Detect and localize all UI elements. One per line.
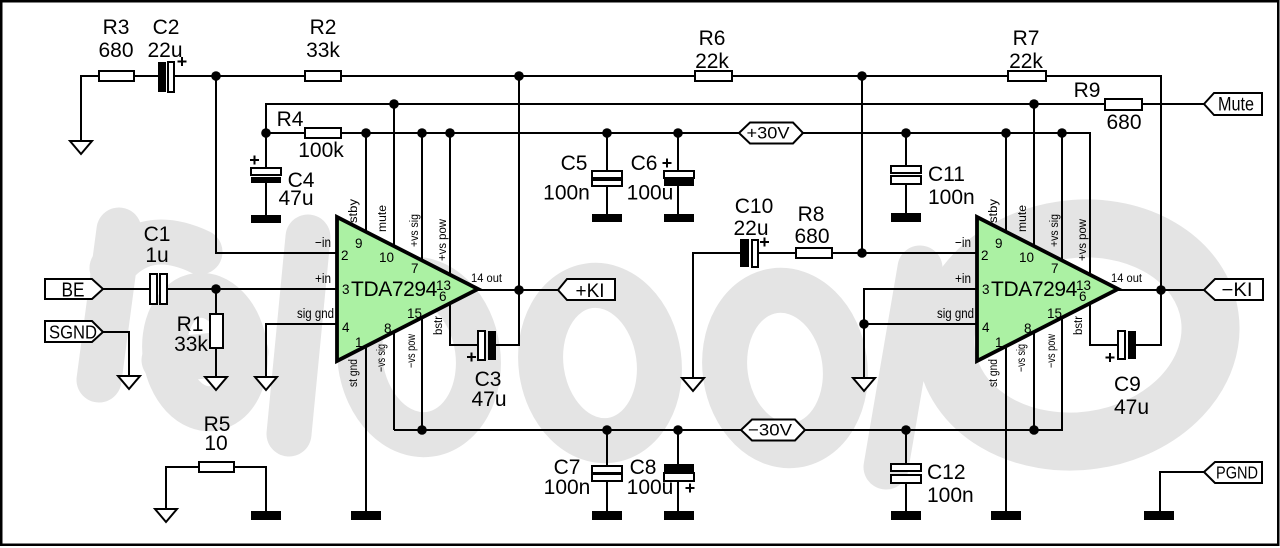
ground [891,511,921,520]
svg-text:100u: 100u [627,182,674,205]
resistor R7 [1008,27,1046,81]
svg-text:+vs pow: +vs pow [437,218,449,261]
ground [991,511,1021,520]
ground [351,511,381,520]
wire [1160,472,1204,511]
resistor R4 [277,108,345,162]
ground [682,378,704,391]
capacitor C7 [544,430,622,511]
capacitor C11 [891,133,975,213]
svg-text:+in: +in [955,271,971,286]
wire [394,318,1062,430]
wire [864,324,977,378]
op-amp U2 [977,217,1118,361]
node [673,425,683,435]
node [514,71,524,81]
capacitor C9 [1106,331,1150,419]
ground [251,215,281,223]
svg-text:6: 6 [1079,289,1087,304]
wire [175,75,306,77]
capacitor C10 [733,195,773,267]
svg-text:2: 2 [341,248,349,263]
svg-text:−vs sig: −vs sig [1016,344,1028,372]
svg-text:C2: C2 [153,16,180,39]
svg-text:PGND: PGND [1216,463,1258,483]
wire [864,289,977,324]
op-amp U2 pin labels [988,199,1089,387]
ground [664,214,694,222]
svg-text:bstr: bstr [433,316,445,335]
wire [1090,302,1118,345]
resistor R2 [305,16,341,81]
ground [251,511,281,520]
svg-text:1: 1 [355,335,363,350]
svg-text:15: 15 [407,306,422,321]
node [361,128,371,138]
svg-text:−30V: −30V [748,421,793,440]
op-amp U1 [337,217,478,361]
node [445,128,455,138]
svg-text:−vs pow: −vs pow [1046,333,1058,368]
wire [421,317,423,430]
svg-text:680: 680 [1106,111,1141,134]
svg-text:14 out: 14 out [471,271,503,285]
wire [341,75,695,77]
resistor R8 [794,203,832,258]
svg-text:st gnd: st gnd [348,359,360,387]
svg-text:mute: mute [377,205,389,232]
svg-text:−in: −in [955,235,971,250]
svg-text:+30V: +30V [747,124,791,143]
op-amp U1 pin labels [348,199,449,387]
wire [496,290,519,345]
wire [1136,290,1161,345]
node [857,248,867,258]
op-amp U1 pin numbers [297,235,503,350]
svg-text:C1: C1 [144,223,171,246]
wire [478,289,558,291]
wire [266,324,337,377]
wire [1005,133,1007,232]
svg-text:100n: 100n [928,186,975,209]
ground [205,377,227,390]
svg-text:C11: C11 [928,163,965,186]
svg-text:C10: C10 [735,195,774,218]
svg-text:100n: 100n [927,484,974,507]
ground [118,376,140,389]
svg-text:4: 4 [982,320,990,335]
wire [758,252,796,254]
capacitor C3 [467,331,507,411]
wire [1033,332,1035,430]
ground [853,378,875,391]
wire [166,467,199,509]
ground [592,214,622,222]
svg-text:bstr: bstr [1073,316,1085,335]
svg-text:C12: C12 [927,461,966,484]
wire [1033,104,1035,246]
svg-text:8: 8 [1024,321,1032,336]
svg-text:R4: R4 [277,108,304,131]
svg-text:100k: 100k [298,139,344,162]
node [261,128,271,138]
svg-text:22u: 22u [733,217,768,240]
ground [70,141,92,154]
node [901,425,911,435]
svg-text:+in: +in [315,271,331,286]
capacitor C1 [144,223,171,304]
svg-text:1: 1 [995,335,1003,350]
node [514,285,524,295]
wire [732,75,1008,77]
svg-text:9: 9 [355,236,363,251]
wire [167,288,337,290]
svg-text:47u: 47u [278,187,313,210]
svg-text:C9: C9 [1114,373,1141,396]
wire [832,252,977,254]
svg-text:R9: R9 [1074,79,1101,102]
net -30V [741,420,805,441]
node [602,425,612,435]
node [602,128,612,138]
svg-text:3: 3 [982,282,990,297]
svg-text:R7: R7 [1013,27,1040,50]
svg-text:sig gnd: sig gnd [297,306,334,321]
svg-text:2: 2 [981,248,989,263]
wire [216,76,337,253]
svg-text:SGND: SGND [49,322,97,343]
svg-text:33k: 33k [306,39,340,62]
resistor R5 [199,413,234,472]
svg-text:100n: 100n [544,476,591,499]
node [389,99,399,109]
svg-text:7: 7 [411,261,419,276]
node [1029,425,1039,435]
wire [861,76,863,253]
watermark reloop [99,212,1224,467]
wire [449,133,451,275]
node [417,425,427,435]
wire [266,104,1204,133]
wire [1046,76,1161,290]
wire [421,133,423,261]
capacitor C5 [543,133,622,214]
ground [592,511,622,520]
svg-text:22k: 22k [1009,50,1043,73]
capacitor C8 [627,430,695,511]
svg-text:9: 9 [995,236,1003,251]
capacitor C4 [250,133,315,215]
net BE [45,279,103,302]
wire [234,467,266,511]
wire [103,332,129,376]
wire [134,75,158,77]
svg-text:22k: 22k [695,50,729,73]
svg-text:mute: mute [1017,205,1029,232]
node [1057,128,1067,138]
svg-text:14 out: 14 out [1111,271,1143,285]
svg-text:4: 4 [342,320,350,335]
ground [255,377,277,390]
svg-text:47u: 47u [471,388,506,411]
svg-text:R2: R2 [310,16,337,39]
node [1001,128,1011,138]
ground [1144,511,1174,520]
wire [365,133,367,232]
net -KI [1204,279,1263,301]
wire [393,332,395,430]
wire [1005,346,1007,511]
svg-text:−vs sig: −vs sig [376,344,388,372]
net Mute [1204,93,1262,116]
svg-text:680: 680 [98,39,133,62]
svg-text:6: 6 [439,289,447,304]
svg-text:C6: C6 [631,152,658,175]
ground [155,509,177,522]
svg-text:TDA7294: TDA7294 [991,278,1078,301]
net PGND [1204,462,1262,483]
wire [103,288,150,290]
ground [891,213,921,222]
wire [693,253,741,378]
svg-text:+vs sig: +vs sig [1049,214,1061,247]
svg-text:100n: 100n [543,182,590,205]
svg-text:100u: 100u [627,476,674,499]
capacitor C6 [627,133,694,214]
node [417,128,427,138]
svg-text:1u: 1u [145,244,168,267]
wire [450,302,478,345]
node [211,71,221,81]
resistor R9 [1074,79,1142,134]
svg-text:st gnd: st gnd [988,359,1000,387]
svg-text:22u: 22u [147,39,182,62]
svg-text:33k: 33k [174,333,208,356]
svg-text:R6: R6 [699,27,726,50]
capacitor C2 [147,16,186,92]
svg-text:+KI: +KI [576,281,605,302]
svg-text:BE: BE [62,280,85,302]
svg-text:R8: R8 [798,203,825,226]
capacitor C12 [891,430,974,511]
wire [393,104,395,246]
resistor R6 [695,27,732,81]
svg-text:+vs pow: +vs pow [1077,218,1089,261]
svg-text:10: 10 [379,250,394,265]
net +30V [739,123,803,144]
op-amp U2 pin numbers [937,235,1143,350]
svg-text:7: 7 [1051,261,1059,276]
svg-text:stby: stby [348,199,360,223]
wire [365,346,367,511]
node [1029,99,1039,109]
wire [1061,133,1063,261]
net SGND [45,321,103,343]
svg-text:sig gnd: sig gnd [937,306,974,321]
net +KI [558,279,615,302]
wire [81,76,99,141]
resistor R1 [174,289,223,377]
wire [266,133,1090,275]
svg-text:10: 10 [204,432,227,455]
svg-text:47u: 47u [1114,396,1149,419]
svg-text:C5: C5 [561,152,588,175]
svg-text:3: 3 [342,282,350,297]
node [857,71,867,81]
svg-text:680: 680 [794,225,829,248]
svg-text:R3: R3 [103,16,130,39]
svg-text:+vs sig: +vs sig [409,214,421,247]
svg-text:−in: −in [315,235,331,250]
svg-text:stby: stby [988,199,1000,223]
svg-text:8: 8 [384,321,392,336]
svg-text:10: 10 [1019,250,1034,265]
svg-text:15: 15 [1047,306,1062,321]
ground [664,511,694,520]
svg-text:−vs pow: −vs pow [406,333,418,368]
node [1156,285,1166,295]
wire [518,76,520,290]
node [859,319,869,329]
node [673,128,683,138]
svg-text:Mute: Mute [1218,95,1254,116]
svg-text:−KI: −KI [1222,280,1253,301]
svg-text:TDA7294: TDA7294 [351,278,438,301]
resistor R3 [98,16,134,81]
node [211,284,221,294]
node [901,128,911,138]
wire [1118,289,1204,291]
